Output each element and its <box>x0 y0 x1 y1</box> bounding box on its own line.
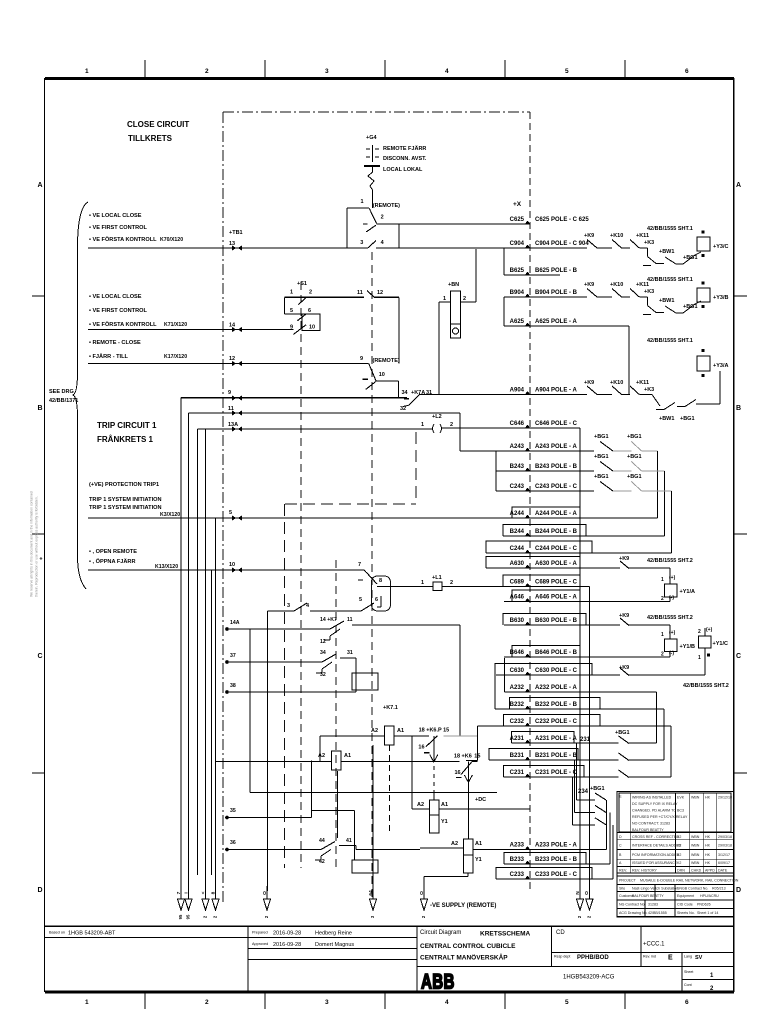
wire K3/X120 row 5 <box>88 517 504 519</box>
svg-text:TRIP 1 SYSTEM INITIATION: TRIP 1 SYSTEM INITIATION <box>89 497 162 503</box>
wire feeder 215 <box>215 518 217 897</box>
revision table <box>617 792 734 917</box>
svg-text:REFUSED PER +CT/CY/X RELAY: REFUSED PER +CT/CY/X RELAY <box>632 815 688 819</box>
labels PROTECTION TRIP <box>89 482 180 518</box>
contact 8 switch <box>358 570 391 611</box>
svg-text:K2: K2 <box>677 835 681 839</box>
contact 5-6 <box>359 596 381 611</box>
arrow out 215 <box>210 886 219 918</box>
contact +K6.P <box>418 728 449 763</box>
contact pair +BG1 row 451 <box>580 434 657 518</box>
label 231 <box>580 737 591 743</box>
svg-text:C244: C244 <box>510 546 525 552</box>
wire A232 left feed <box>504 658 506 692</box>
svg-text:PROJECT: PROJECT <box>619 879 637 883</box>
svg-text:+Y3/C: +Y3/C <box>713 244 728 250</box>
svg-text:• VE LOCAL CLOSE: • VE LOCAL CLOSE <box>89 213 142 219</box>
svg-text:6: 6 <box>685 999 689 1006</box>
wire L1 row <box>377 586 504 588</box>
contact +BG1 234 b <box>575 805 607 812</box>
contact +K7 14-11 <box>320 617 353 645</box>
dashed vertical 301 <box>300 282 302 868</box>
switch zigzag +G4 <box>368 166 374 208</box>
title block circuit diagram <box>420 930 531 938</box>
wire wrap verticals 231 <box>573 743 577 825</box>
labels REMOTE FJARR <box>383 145 427 173</box>
svg-text:32: 32 <box>400 406 406 412</box>
svg-text:+K9: +K9 <box>584 233 594 239</box>
wire C689 wrap <box>588 587 590 898</box>
svg-text:A: A <box>37 182 42 189</box>
svg-text:CHKD: CHKD <box>691 869 702 873</box>
svg-text:(+): (+) <box>706 627 713 633</box>
wire row B232 <box>495 702 664 709</box>
svg-text:WBN: WBN <box>691 835 700 839</box>
arrow out 188 <box>183 886 192 919</box>
svg-text:42/BB/1555 SHT.2: 42/BB/1555 SHT.2 <box>683 683 729 689</box>
svg-text:DATE: DATE <box>718 869 728 873</box>
svg-text:7: 7 <box>358 562 361 568</box>
svg-text:A630 POLE - A: A630 POLE - A <box>535 561 577 567</box>
svg-text:DC SUPPLY FOR IX RELAY: DC SUPPLY FOR IX RELAY <box>632 802 678 806</box>
svg-text:A646 POLE - A: A646 POLE - A <box>535 595 577 601</box>
arrow out 373 <box>368 886 377 918</box>
svg-text:C: C <box>736 653 741 660</box>
device +L1 <box>421 575 453 591</box>
wire BN left <box>439 302 451 395</box>
svg-text:6/09/17: 6/09/17 <box>718 861 730 865</box>
svg-text:A243 POLE - A: A243 POLE - A <box>535 444 577 450</box>
svg-text:+DC: +DC <box>475 797 486 803</box>
wire row C233 <box>496 872 613 879</box>
svg-text:95: 95 <box>178 914 183 919</box>
title block prepared <box>252 931 352 937</box>
wire 13A row <box>198 428 434 430</box>
svg-text:42/BB/1371: 42/BB/1371 <box>49 398 78 404</box>
row letters A-D <box>37 182 741 894</box>
label 7 wire10 <box>358 562 361 568</box>
contact +BG1 234 c <box>573 818 607 825</box>
svg-text:B904: B904 <box>510 290 525 296</box>
column tick marks <box>145 60 625 1009</box>
svg-text:9: 9 <box>290 325 293 331</box>
svg-text:3: 3 <box>325 68 329 75</box>
svg-text:(+): (+) <box>669 630 676 636</box>
wire row B625 <box>504 268 578 275</box>
svg-text:C232: C232 <box>510 719 525 725</box>
svg-text:+K10: +K10 <box>610 233 623 239</box>
svg-text:36: 36 <box>230 840 236 846</box>
svg-text:14A: 14A <box>230 620 240 626</box>
svg-text:3: 3 <box>325 999 329 1006</box>
svg-text:B231: B231 <box>510 753 525 759</box>
relay Y1 right <box>451 839 482 873</box>
wire feeder 205 <box>205 429 207 897</box>
svg-text:3: 3 <box>360 240 363 246</box>
terminal +TB1 13 <box>229 230 243 251</box>
svg-text:16: 16 <box>418 745 424 751</box>
svg-text:R05/213: R05/213 <box>712 886 726 890</box>
svg-text:C243: C243 <box>510 484 525 490</box>
label -VE SUPPLY <box>430 903 496 909</box>
dashed coil K7.1a drop <box>388 745 390 832</box>
terminal 12 <box>229 356 242 366</box>
svg-text:2: 2 <box>698 629 701 635</box>
svg-text:2016-09-28: 2016-09-28 <box>273 931 301 937</box>
svg-text:+K11: +K11 <box>636 380 649 386</box>
svg-text:A1: A1 <box>475 841 482 847</box>
svg-text:Domert Magnus: Domert Magnus <box>315 942 354 948</box>
wire 9 row <box>181 397 407 399</box>
svg-text:8: 8 <box>210 891 216 894</box>
svg-text:42/BB/1555 SHT.2: 42/BB/1555 SHT.2 <box>647 558 693 564</box>
wire row B244 <box>503 529 586 536</box>
svg-text:C231 POLE - C: C231 POLE - C <box>535 770 578 776</box>
svg-text:Y1: Y1 <box>441 819 448 825</box>
wire coil row 736 <box>320 735 429 737</box>
svg-text:B904 POLE - B: B904 POLE - B <box>535 290 578 296</box>
svg-text:B233 POLE - B: B233 POLE - B <box>535 857 578 863</box>
svg-text:• , ÖPPNA FJÄRR: • , ÖPPNA FJÄRR <box>89 558 136 565</box>
svg-text:A904: A904 <box>510 388 525 394</box>
wire row B231 <box>489 753 618 760</box>
wire feeder 181 <box>180 398 182 897</box>
svg-text:2: 2 <box>661 596 664 602</box>
svg-text:+S1: +S1 <box>297 281 307 287</box>
wire K6 drop <box>467 762 469 839</box>
svg-text:11: 11 <box>347 617 353 623</box>
border frame <box>45 78 735 992</box>
svg-text:2: 2 <box>450 580 453 586</box>
svg-text:A2: A2 <box>451 841 458 847</box>
wire 373 drop <box>373 745 384 891</box>
coil group +Y3/A <box>584 338 728 422</box>
terminal 13A <box>228 422 242 432</box>
svg-text:C630 POLE - C: C630 POLE - C <box>535 668 578 674</box>
svg-text:2: 2 <box>450 422 453 428</box>
svg-text:+BG1: +BG1 <box>627 474 642 480</box>
row enclosure boxes <box>486 507 600 879</box>
svg-text:A2: A2 <box>371 728 378 734</box>
svg-text:Lang: Lang <box>684 955 692 959</box>
svg-text:+L2: +L2 <box>432 414 442 420</box>
svg-text:31: 31 <box>347 650 353 656</box>
svg-text:C243 POLE - C: C243 POLE - C <box>535 484 578 490</box>
contact +BG1 C231 <box>605 770 629 778</box>
svg-text:1: 1 <box>290 290 293 296</box>
wire coil K7.1b drop <box>336 771 338 838</box>
title block drawing no <box>563 975 615 981</box>
contact (REMOTE) close 1-2 <box>347 199 400 232</box>
wire A625 wrap to A904 <box>628 326 630 395</box>
contact +K6 <box>454 754 481 783</box>
svg-text:C689: C689 <box>510 580 525 586</box>
svg-text:16: 16 <box>455 770 461 776</box>
svg-text:3/12/17: 3/12/17 <box>718 853 730 857</box>
coil +Y1/C <box>698 627 728 675</box>
svg-text:5: 5 <box>229 510 232 516</box>
svg-text:Approved: Approved <box>252 942 268 946</box>
svg-text:2: 2 <box>661 652 664 658</box>
title block rev ind <box>643 955 673 962</box>
svg-text:12: 12 <box>377 290 383 296</box>
svg-text:C233: C233 <box>510 872 525 878</box>
coil group +Y1/B <box>619 613 695 658</box>
svg-text:C625: C625 <box>510 217 525 223</box>
contact 44-41 row36 <box>315 838 352 865</box>
svg-text:REV. HISTORY: REV. HISTORY <box>632 869 658 873</box>
svg-text:1: 1 <box>661 577 664 583</box>
svg-text:+K3: +K3 <box>644 387 654 393</box>
svg-text:Nast-Lingo Veitch Substation: Nast-Lingo Veitch Substation <box>632 886 678 890</box>
labels VE LOCAL CLOSE group1 <box>89 213 183 243</box>
svg-text:WBN: WBN <box>691 796 700 800</box>
contact pair +BG1 row 471 <box>586 454 665 536</box>
contact +K7A 34-31 <box>400 390 432 412</box>
wire 12 drop to remote contact <box>375 297 399 363</box>
svg-text:C: C <box>619 844 622 848</box>
wire row C689 <box>504 580 589 587</box>
svg-text:HK: HK <box>705 835 711 839</box>
wire row B904 <box>504 290 587 297</box>
title CLOSE CIRCUIT <box>127 120 189 143</box>
svg-text:N: N <box>575 891 581 895</box>
svg-text:+BG1: +BG1 <box>627 434 642 440</box>
switch +S1 label <box>297 281 307 287</box>
wire 37 wrap <box>352 658 378 692</box>
svg-text:Sheet 1 of 14: Sheet 1 of 14 <box>697 911 718 915</box>
project table <box>617 876 739 917</box>
svg-text:+BG1: +BG1 <box>615 730 630 736</box>
svg-text:C233 POLE - C: C233 POLE - C <box>535 872 578 878</box>
svg-text:INTERFACE DETAILS ADDED: INTERFACE DETAILS ADDED <box>632 844 682 848</box>
svg-text:B630 POLE - B: B630 POLE - B <box>535 618 578 624</box>
mechanical link dashed <box>285 432 416 504</box>
wire K6P drop <box>433 736 435 801</box>
svg-text:EVK: EVK <box>677 796 685 800</box>
svg-text:A233 POLE - A: A233 POLE - A <box>535 842 577 848</box>
svg-text:WBN: WBN <box>691 861 700 865</box>
svg-text:Resp dept: Resp dept <box>554 955 570 959</box>
svg-text:3: 3 <box>287 603 290 609</box>
svg-text:NG Contract No.: NG Contract No. <box>619 903 646 907</box>
contact pair +BG1 row 491 <box>592 474 672 553</box>
svg-text:B630: B630 <box>510 618 525 624</box>
wire 35 riser <box>310 761 312 818</box>
dashed vertical 372 <box>371 252 373 898</box>
svg-text:CENTRAL CONTROL CUBICLE: CENTRAL CONTROL CUBICLE <box>420 943 516 950</box>
svg-text:9: 9 <box>228 390 231 396</box>
svg-text:LOCAL LOKAL: LOCAL LOKAL <box>383 167 423 173</box>
svg-text:C904 POLE - C 904: C904 POLE - C 904 <box>535 241 589 247</box>
wire row A904 <box>439 388 587 395</box>
svg-text:• VE FÖRSTA KONTROLL: • VE FÖRSTA KONTROLL <box>89 236 157 243</box>
svg-text:1: 1 <box>85 68 89 75</box>
svg-text:18 +K6: 18 +K6 <box>454 754 472 760</box>
svg-text:(+VE) PROTECTION TRIP1: (+VE) PROTECTION TRIP1 <box>89 482 159 488</box>
contact S1 9-10 <box>290 325 315 335</box>
wire row B233 <box>504 857 610 864</box>
wire C232 wrap <box>629 726 672 777</box>
svg-text:CENTRALT MANÖVERSKÅP: CENTRALT MANÖVERSKÅP <box>420 953 508 962</box>
svg-text:A2: A2 <box>318 753 325 759</box>
svg-text:BALFOUR BEATTY: BALFOUR BEATTY <box>632 894 664 898</box>
contact 3-4 <box>268 603 362 611</box>
svg-text:+K10: +K10 <box>610 282 623 288</box>
svg-text:MUSAILE E-DOUBLE RAIL NETWORK,: MUSAILE E-DOUBLE RAIL NETWORK, RAIL CONN… <box>640 879 739 883</box>
svg-text:A625: A625 <box>510 319 525 325</box>
svg-text:A1: A1 <box>441 802 448 808</box>
coil group +Y3/B <box>584 277 728 315</box>
svg-text:C904: C904 <box>510 241 525 247</box>
wire row B646 <box>504 650 670 657</box>
terminal 14 <box>229 323 242 333</box>
svg-text:+K9: +K9 <box>584 282 594 288</box>
svg-text:K2: K2 <box>677 861 681 865</box>
svg-text:+BW1: +BW1 <box>659 249 674 255</box>
svg-text:A904 POLE - A: A904 POLE - A <box>535 388 577 394</box>
wire 14A down <box>459 625 461 736</box>
svg-text:+Y1/C: +Y1/C <box>713 641 728 647</box>
svg-text:95: 95 <box>186 914 191 919</box>
arrow out 589 <box>584 886 593 918</box>
svg-text:K3/X120: K3/X120 <box>160 512 180 518</box>
coil group +Y3/C <box>584 226 728 266</box>
svg-text:44: 44 <box>319 838 325 844</box>
svg-text:B244: B244 <box>510 529 525 535</box>
wire row A231 <box>510 736 618 743</box>
title block grid <box>45 926 734 992</box>
svg-text:Hedberg Reine: Hedberg Reine <box>315 931 352 937</box>
wire K13/X120 row 10 <box>88 569 364 571</box>
svg-text:1: 1 <box>85 999 89 1006</box>
svg-text:• , OPEN REMOTE: • , OPEN REMOTE <box>89 549 137 555</box>
svg-text:1: 1 <box>421 422 424 428</box>
svg-text:• VE FIRST CONTROL: • VE FIRST CONTROL <box>89 308 147 314</box>
wire row A625 <box>504 319 629 326</box>
wire row C232 <box>503 719 671 726</box>
svg-text:B243 POLE - B: B243 POLE - B <box>535 464 578 470</box>
svg-text:(+): (+) <box>669 575 676 581</box>
svg-text:A231 POLE - A: A231 POLE - A <box>535 736 577 742</box>
svg-text:NO CONTRACT: 31283: NO CONTRACT: 31283 <box>632 822 670 826</box>
wire feeder 211 <box>211 570 213 875</box>
group brace <box>73 202 88 589</box>
svg-text:ACG Drawing No.: ACG Drawing No. <box>619 911 648 915</box>
terminal 10 <box>229 562 242 573</box>
svg-text:A2: A2 <box>417 802 424 808</box>
svg-text:+L1: +L1 <box>432 575 442 581</box>
arrow out 424 <box>419 886 428 918</box>
title block central control <box>420 943 516 962</box>
svg-text:(REMOTE): (REMOTE) <box>373 358 400 364</box>
svg-text:PCM INFORMATION ADDED: PCM INFORMATION ADDED <box>632 853 680 857</box>
svg-text:42/BB/1555: 42/BB/1555 <box>648 911 667 915</box>
wire row C231 <box>503 770 618 777</box>
left margin note <box>30 491 44 597</box>
contact S1 1-2 <box>285 290 364 315</box>
svg-text:A625 POLE - A: A625 POLE - A <box>535 319 577 325</box>
wire 320 link <box>319 736 321 762</box>
svg-text:41: 41 <box>346 838 352 844</box>
svg-text:A1: A1 <box>397 728 404 734</box>
contact 34-31 row37 <box>316 650 353 678</box>
svg-text:APPD: APPD <box>705 869 715 873</box>
svg-text:C646: C646 <box>510 421 525 427</box>
contact 11-12 <box>357 290 383 298</box>
wire relay drop VE <box>424 873 468 891</box>
wire into relay Y1 right <box>420 847 464 849</box>
svg-text:B232: B232 <box>510 702 525 708</box>
svg-text:4: 4 <box>445 999 449 1006</box>
svg-text:O: O <box>419 891 425 895</box>
device +L2 <box>421 414 453 433</box>
svg-text:A232: A232 <box>510 685 525 691</box>
svg-text:A243: A243 <box>510 444 525 450</box>
svg-text:C646 POLE - C: C646 POLE - C <box>535 421 578 427</box>
svg-text:CID Code: CID Code <box>677 903 693 907</box>
svg-text:Sheets No.: Sheets No. <box>677 911 695 915</box>
wire K7A to BN <box>420 394 439 396</box>
title block CCC <box>643 942 665 948</box>
wire 37 row <box>225 653 322 664</box>
svg-text:Circuit Diagram: Circuit Diagram <box>420 930 461 936</box>
title TRIP CIRCUIT 1 <box>97 421 157 444</box>
svg-text:O: O <box>584 891 590 895</box>
title block lang <box>684 955 703 962</box>
svg-text:9: 9 <box>360 356 363 362</box>
svg-text:+Y1/B: +Y1/B <box>680 644 695 650</box>
contact +BG1 A231 <box>605 730 630 744</box>
bracket A243 C243 <box>495 451 497 491</box>
svg-text:K13/X120: K13/X120 <box>155 564 178 570</box>
svg-text:+K7.1: +K7.1 <box>383 705 398 711</box>
svg-text:C: C <box>37 653 42 660</box>
svg-text:Prepared: Prepared <box>252 931 268 935</box>
svg-text:+K9: +K9 <box>584 380 594 386</box>
svg-text:6: 6 <box>375 597 378 603</box>
title block sheet <box>684 970 714 979</box>
disconnector +G4 label <box>366 135 377 141</box>
svg-text:K71/X120: K71/X120 <box>164 322 187 328</box>
svg-text:• FJÄRR - TILL: • FJÄRR - TILL <box>89 353 129 360</box>
svg-text:1: 1 <box>661 632 664 638</box>
svg-text:C231: C231 <box>510 770 525 776</box>
labels VE LOCAL CLOSE group2 <box>89 294 187 328</box>
svg-text:42/BB/1555 SHT.1: 42/BB/1555 SHT.1 <box>647 277 693 283</box>
wire row C630 <box>496 668 620 675</box>
coil group +Y1/A <box>619 556 695 602</box>
wire 38 row <box>225 683 356 694</box>
svg-text:4: 4 <box>445 68 449 75</box>
svg-text:TILLKRETS: TILLKRETS <box>128 134 173 143</box>
svg-text:8: 8 <box>379 578 382 584</box>
svg-text:HK: HK <box>705 861 711 865</box>
wire row A244 <box>504 511 580 518</box>
svg-text:+BG1: +BG1 <box>627 454 642 460</box>
svg-text:38: 38 <box>230 683 236 689</box>
wire 36 wrap <box>352 846 420 874</box>
coil group C630 K9 <box>619 665 729 689</box>
wire +DC bus <box>250 793 497 804</box>
wire row C904 <box>504 241 589 248</box>
wire 412 link <box>411 736 413 809</box>
svg-text:• REMOTE - CLOSE: • REMOTE - CLOSE <box>89 340 141 346</box>
svg-text:ABB: ABB <box>421 969 455 993</box>
wire A232 wrap <box>629 692 657 743</box>
svg-text:+BN: +BN <box>448 282 459 288</box>
svg-text:E: E <box>619 794 622 799</box>
